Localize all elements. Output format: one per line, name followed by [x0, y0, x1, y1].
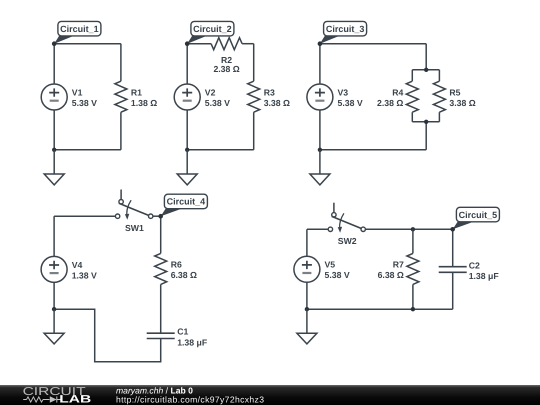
svg-text:3.38 Ω: 3.38 Ω	[449, 98, 475, 108]
wire C4 V4 top vertical	[53, 216, 55, 256]
junction dot C1 bottom	[52, 148, 56, 152]
wire C2 ground stub	[186, 150, 188, 174]
svg-text:LAB: LAB	[59, 394, 91, 405]
svg-text:R4: R4	[392, 87, 403, 97]
wire C4 V4 bottom	[53, 282, 55, 309]
resistor R4	[406, 70, 418, 122]
wire C3 V3 bottom	[319, 110, 321, 150]
svg-text:2.38 Ω: 2.38 Ω	[377, 98, 403, 108]
wire C4 top to SW1	[54, 215, 115, 217]
wire C3 left vertical	[319, 44, 321, 84]
capacitor C2	[439, 267, 467, 273]
svg-text:5.38 V: 5.38 V	[325, 270, 350, 280]
wire C5 ground stub	[306, 309, 308, 333]
svg-text:R5: R5	[449, 87, 460, 97]
node label Circuit_3 callout	[320, 21, 367, 43]
wire C2 node to R2 left	[187, 43, 211, 45]
CircuitLab logo and footer text	[0, 385, 540, 405]
svg-text:V2: V2	[205, 87, 216, 97]
svg-text:R7: R7	[393, 260, 404, 270]
wire C1 V1 bottom to bottom rail	[53, 110, 55, 150]
junction dot C2 bottom	[185, 148, 189, 152]
svg-text:R1: R1	[131, 87, 142, 97]
svg-text:1.38 μF: 1.38 μF	[469, 271, 499, 281]
wire C5 bottom rail	[307, 308, 453, 310]
junction dot C5 R7 bottom	[411, 307, 415, 311]
svg-text:Circuit_4: Circuit_4	[167, 197, 206, 207]
svg-text:3.38 Ω: 3.38 Ω	[264, 98, 290, 108]
ground C3	[310, 174, 330, 185]
ground C1	[44, 174, 64, 185]
wire C1 bottom rail	[54, 149, 121, 151]
wire C3 ground stub	[319, 150, 321, 174]
svg-text:V4: V4	[72, 260, 83, 270]
voltage source V2	[174, 84, 200, 110]
svg-text:1.38 Ω: 1.38 Ω	[131, 98, 157, 108]
svg-text:C1: C1	[177, 326, 188, 336]
capacitor C1	[147, 333, 175, 338]
wire C4 R6 to C1	[160, 284, 162, 333]
wire C3 parallel top bracket	[412, 69, 439, 71]
svg-text:SW2: SW2	[338, 236, 357, 246]
svg-text:6.38 Ω: 6.38 Ω	[171, 270, 197, 280]
wire C1 top horizontal	[54, 43, 121, 45]
wire C2 left vertical	[186, 44, 188, 84]
wire C5 V5 bottom	[306, 282, 308, 309]
wire C4 ground stub	[53, 309, 55, 333]
svg-text:R3: R3	[264, 87, 275, 97]
svg-text:V3: V3	[338, 87, 349, 97]
wire C5 R7 bottom vertical	[412, 284, 414, 309]
svg-text:V1: V1	[72, 87, 83, 97]
wire C4 C1 bottom return path	[54, 309, 161, 362]
svg-text:Circuit_3: Circuit_3	[326, 24, 365, 34]
voltage source V4	[41, 256, 67, 282]
svg-text:2.38 Ω: 2.38 Ω	[213, 64, 239, 74]
junction dot C5 R7 top	[411, 227, 415, 231]
wire C5 top to SW2	[307, 228, 328, 230]
junction dot C3 parallel bottom	[424, 120, 428, 124]
junction dot C1 top node	[52, 41, 57, 46]
svg-text:V5: V5	[325, 260, 336, 270]
svg-text:http://circuitlab.com/ck97y72h: http://circuitlab.com/ck97y72hcxhz3	[116, 395, 264, 405]
junction dot C5 node	[450, 227, 455, 232]
switch SW2	[328, 203, 365, 233]
wire C2 V2 bottom	[186, 110, 188, 150]
resistor R3	[248, 44, 260, 150]
wire C4 node down to R6	[160, 216, 162, 253]
voltage source V3	[307, 84, 333, 110]
svg-text:SW1: SW1	[125, 223, 144, 233]
resistor R5	[433, 70, 445, 122]
svg-text:C2: C2	[469, 260, 480, 270]
svg-text:Circuit_2: Circuit_2	[193, 24, 232, 34]
junction dot C3 parallel top	[424, 68, 428, 72]
wire C1 ground stub	[53, 150, 55, 174]
resistor R2	[211, 38, 242, 50]
svg-text:5.38 V: 5.38 V	[338, 98, 363, 108]
wire C2 bottom rail	[187, 149, 254, 151]
svg-text:Circuit_1: Circuit_1	[60, 24, 99, 34]
wire C3 parallel bottom bracket	[412, 121, 439, 123]
ground C4	[44, 333, 64, 344]
voltage source V5	[294, 256, 320, 282]
voltage source V1	[41, 84, 67, 110]
node label Circuit_4 callout	[161, 194, 208, 216]
junction dot C2 top node	[185, 41, 190, 46]
node label Circuit_5 callout	[453, 207, 500, 229]
resistor R7	[407, 253, 419, 284]
wire C3 bottom rail	[320, 149, 426, 151]
footer bar	[0, 385, 540, 405]
svg-text:R6: R6	[171, 260, 182, 270]
node label Circuit_1 callout	[54, 21, 101, 43]
wire C3 feed down to parallel top	[425, 44, 427, 70]
wire C1 left vertical (node to V1 top)	[53, 44, 55, 84]
node label Circuit_2 callout	[187, 21, 234, 43]
wire C5 V5 top vertical	[306, 229, 308, 256]
switch SW1	[115, 190, 152, 220]
svg-text:1.38 V: 1.38 V	[72, 270, 97, 280]
wire C2 R2 right to corner	[242, 43, 254, 45]
junction dot C4 node	[158, 214, 163, 219]
svg-text:5.38 V: 5.38 V	[205, 98, 230, 108]
junction dot C3 top node	[318, 41, 323, 46]
ground C5	[297, 333, 317, 344]
junction dot C4 bottom	[52, 307, 56, 311]
junction dot C3 bottom left	[318, 148, 322, 152]
resistor R1	[115, 44, 127, 150]
wire C5 C2 top vertical	[452, 229, 454, 266]
wire C5 R7 top vertical	[412, 229, 414, 253]
wire C3 top horizontal	[320, 43, 426, 45]
wire C3 parallel bottom to rail	[425, 122, 427, 150]
junction dot C5 V5 bottom	[305, 307, 309, 311]
wire C5 C2 bottom vertical	[452, 272, 454, 309]
wire C5 SW2 to C2 node	[365, 228, 452, 230]
svg-text:5.38 V: 5.38 V	[72, 98, 97, 108]
svg-text:6.38 Ω: 6.38 Ω	[378, 270, 404, 280]
resistor R6	[155, 253, 167, 284]
svg-text:1.38 μF: 1.38 μF	[177, 338, 207, 348]
svg-text:Circuit_5: Circuit_5	[459, 210, 498, 220]
wire C4 SW1 to node	[153, 215, 161, 217]
ground C2	[177, 174, 197, 185]
